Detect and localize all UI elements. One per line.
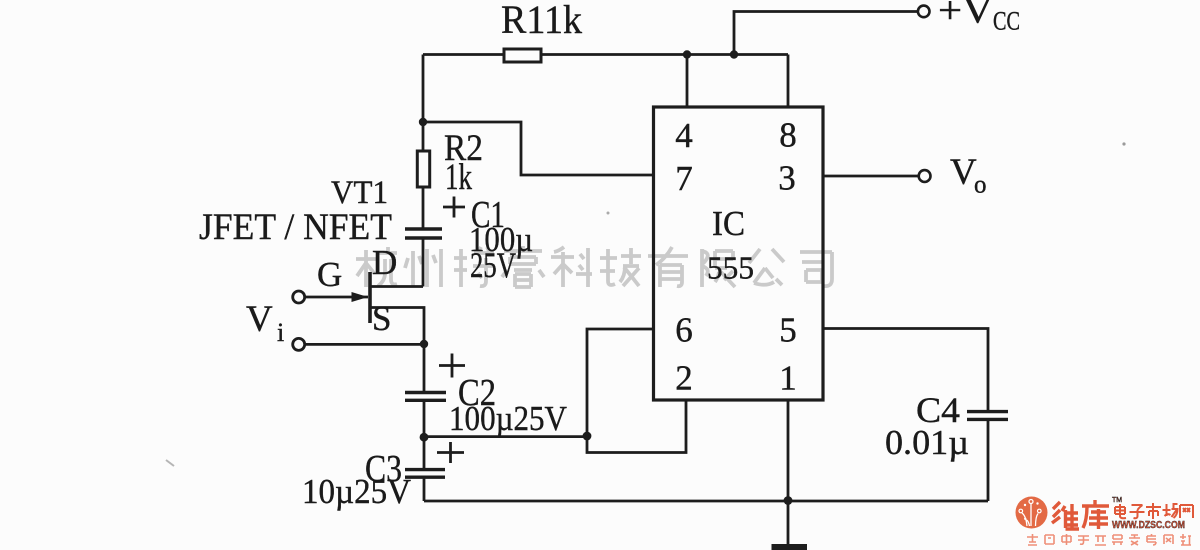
- wire C3 bottom lead: [423, 479, 426, 501]
- stray scan speck left: [166, 460, 174, 466]
- svg-text:o: o: [974, 172, 987, 199]
- transistor VT1 drain lead: [370, 285, 423, 288]
- svg-text:555: 555: [707, 250, 754, 286]
- wire pin 1 to ground: [787, 400, 790, 545]
- wire Vcc riser: [734, 12, 918, 55]
- wire pin 5 to C4: [823, 329, 988, 411]
- wire to pin 2: [587, 399, 686, 453]
- transistor VT1 source lead: [370, 308, 424, 345]
- logo circle emblem: [1016, 497, 1048, 529]
- transistor VT1 channel bar: [368, 272, 372, 323]
- svg-text:V: V: [246, 299, 273, 340]
- svg-text:VT1: VT1: [331, 175, 388, 211]
- resistor R2 body: [417, 151, 429, 187]
- wire R2 bottom lead: [422, 187, 425, 228]
- svg-text:6: 6: [675, 311, 693, 350]
- svg-text:3: 3: [778, 159, 796, 198]
- wire left vertical from rail: [422, 55, 425, 123]
- capacitor C2 plus sign: [439, 354, 465, 378]
- svg-text:25V: 25V: [470, 245, 516, 285]
- stray scan speck right: [1122, 142, 1125, 145]
- capacitor C1 plates: [405, 229, 442, 238]
- wire to C3: [423, 437, 426, 468]
- logo slogan 专业电子元器件交易网站: [1027, 534, 1191, 545]
- label Vi: [246, 299, 284, 347]
- capacitor C1 plus sign: [443, 197, 465, 218]
- wire pin4 stub: [686, 55, 689, 109]
- wire R2 top lead: [422, 122, 425, 151]
- svg-text:TM: TM: [1112, 497, 1122, 504]
- wire C1 bottom lead: [422, 240, 425, 287]
- capacitor C2 plates: [405, 393, 446, 401]
- svg-text:8: 8: [779, 116, 797, 155]
- capacitor C3 plus sign: [437, 442, 464, 463]
- resistor R1 body: [504, 49, 541, 62]
- watermark text 杭州将睿科技有限公司: [356, 246, 832, 287]
- svg-text:CC: CC: [993, 7, 1020, 36]
- svg-text:4: 4: [675, 116, 693, 155]
- svg-text:WWW.DZSC.COM: WWW.DZSC.COM: [1112, 519, 1185, 531]
- svg-text:10µ25V: 10µ25V: [302, 472, 411, 511]
- wire C2 bottom lead: [423, 402, 426, 437]
- svg-text:S: S: [372, 299, 391, 338]
- svg-text:+V: +V: [938, 0, 994, 32]
- capacitor C4 plates: [967, 412, 1008, 420]
- svg-text:2: 2: [675, 359, 693, 398]
- svg-text:JFET / NFET: JFET / NFET: [199, 207, 392, 248]
- terminal Vi lower: [293, 338, 305, 350]
- wire to C2: [423, 344, 426, 391]
- ground: [772, 544, 808, 550]
- svg-text:G: G: [317, 255, 342, 294]
- svg-text:D: D: [372, 243, 397, 282]
- svg-text:V: V: [950, 152, 977, 193]
- svg-text:R11k: R11k: [501, 0, 582, 42]
- transistor VT1 gate wire: [305, 296, 368, 299]
- terminal +Vcc: [918, 6, 930, 18]
- node junction at R2 top: [419, 118, 427, 126]
- terminal Vi upper: [293, 291, 305, 303]
- node junction source/Vi: [420, 340, 428, 348]
- svg-text:i: i: [277, 318, 284, 347]
- wire C4 bottom lead: [987, 421, 990, 501]
- svg-text:0.01µ: 0.01µ: [885, 423, 969, 462]
- svg-text:1k: 1k: [445, 157, 472, 198]
- stray scan speck middle: [607, 212, 610, 215]
- wire top rail: [423, 53, 788, 56]
- svg-text:IC: IC: [712, 204, 745, 243]
- logo text 电子市场网: [1115, 503, 1193, 519]
- wire C2 node to pin6/pin2 node: [424, 435, 587, 438]
- terminal Vo: [919, 170, 931, 182]
- node junction on top rail (Vcc column): [730, 50, 738, 58]
- svg-text:100µ25V: 100µ25V: [449, 399, 567, 438]
- node junction on top rail (pin4 column): [683, 50, 691, 58]
- wire to pin 6: [587, 329, 654, 436]
- wire pin8 stub: [787, 55, 790, 109]
- node junction pin6/pin2: [583, 432, 592, 441]
- IC U1 555 timer box: [654, 107, 824, 400]
- wire Vi lower to source node: [305, 343, 424, 346]
- transistor VT1 gate arrow: [352, 292, 369, 302]
- svg-text:1: 1: [779, 359, 797, 398]
- node junction pin1/bottom rail: [784, 496, 793, 505]
- wire pin 3 to Vo: [823, 175, 919, 178]
- svg-text:5: 5: [779, 311, 797, 350]
- wire bottom rail: [424, 500, 988, 503]
- label +Vcc: [938, 0, 1020, 36]
- capacitor C3 plates: [405, 470, 445, 478]
- logo text 维库: [1052, 500, 1109, 529]
- label Vo: [950, 152, 987, 199]
- svg-text:7: 7: [675, 159, 693, 198]
- node junction below C2: [420, 433, 429, 442]
- wire to pin 7: [423, 122, 654, 175]
